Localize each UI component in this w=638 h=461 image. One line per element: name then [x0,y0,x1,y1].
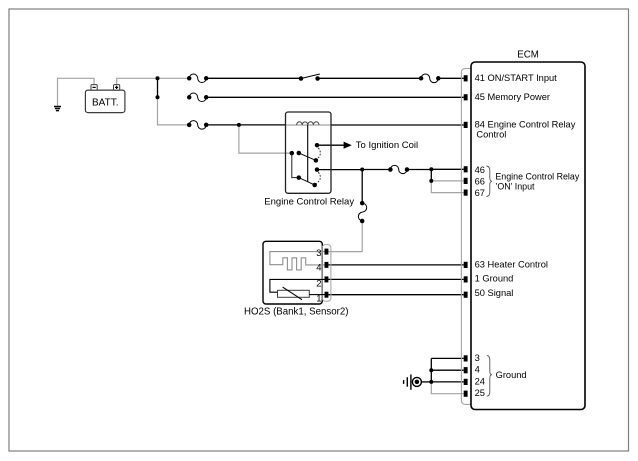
svg-text:Engine Control Relay: Engine Control Relay [495,172,579,182]
svg-text:To Ignition Coil: To Ignition Coil [356,140,418,151]
svg-text:4: 4 [475,365,480,375]
svg-text:ECM: ECM [517,49,539,60]
svg-text:Control: Control [476,130,506,140]
svg-text:3: 3 [316,248,321,259]
svg-text:66: 66 [475,176,485,186]
svg-text:25: 25 [475,388,485,398]
svg-text:1 Ground: 1 Ground [475,274,514,284]
svg-text:46: 46 [475,165,485,175]
svg-text:45 Memory Power: 45 Memory Power [475,92,550,102]
svg-text:’ON’ Input: ’ON’ Input [495,182,535,192]
svg-text:Ground: Ground [496,370,527,380]
svg-text:3: 3 [475,353,480,363]
svg-text:HO2S (Bank1, Sensor2): HO2S (Bank1, Sensor2) [244,307,348,318]
svg-text:24: 24 [475,376,485,386]
svg-text:Engine Control Relay: Engine Control Relay [264,197,354,208]
svg-text:4: 4 [316,263,321,274]
svg-text:50 Signal: 50 Signal [475,288,514,298]
svg-text:63 Heater Control: 63 Heater Control [475,260,548,270]
svg-text:2: 2 [316,279,321,290]
svg-text:1: 1 [316,293,321,304]
svg-text:67: 67 [475,188,485,198]
svg-text:BATT.: BATT. [92,97,118,108]
svg-text:41 ON/START Input: 41 ON/START Input [475,73,558,83]
svg-text:84 Engine Control Relay: 84 Engine Control Relay [475,119,576,129]
